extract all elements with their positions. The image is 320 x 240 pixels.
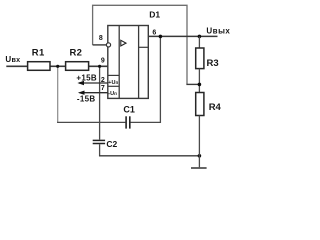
svg-text:R2: R2 xyxy=(70,48,83,59)
svg-text:C1: C1 xyxy=(123,105,135,115)
svg-text:+15В: +15В xyxy=(76,73,97,82)
svg-text:Uвых: Uвых xyxy=(206,27,230,36)
svg-text:C2: C2 xyxy=(106,139,117,149)
svg-text:R3: R3 xyxy=(207,58,219,69)
svg-text:9: 9 xyxy=(101,57,105,64)
svg-text:Uвх: Uвх xyxy=(5,55,20,64)
svg-text:D1: D1 xyxy=(149,10,160,20)
svg-text:6: 6 xyxy=(152,30,156,37)
svg-text:R1: R1 xyxy=(32,48,45,59)
svg-text:8: 8 xyxy=(99,35,103,42)
svg-text:2: 2 xyxy=(101,77,105,84)
svg-text:7: 7 xyxy=(101,85,105,92)
svg-text:R4: R4 xyxy=(209,102,222,113)
svg-text:-15В: -15В xyxy=(77,95,96,104)
